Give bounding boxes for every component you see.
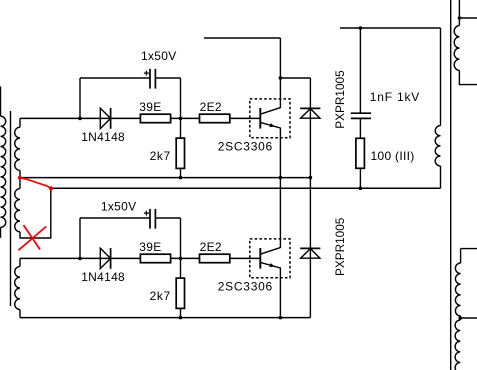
- svg-text:1x50V: 1x50V: [141, 49, 177, 63]
- svg-text:1nF 1kV: 1nF 1kV: [370, 90, 420, 104]
- svg-text:2E2: 2E2: [200, 240, 222, 254]
- svg-text:PXPR1005: PXPR1005: [333, 217, 347, 276]
- svg-text:39E: 39E: [139, 240, 161, 254]
- svg-text:39E: 39E: [139, 100, 161, 114]
- svg-text:1N4148: 1N4148: [81, 270, 125, 284]
- svg-text:1x50V: 1x50V: [101, 200, 137, 214]
- svg-text:2k7: 2k7: [150, 149, 171, 163]
- svg-text:2k7: 2k7: [150, 289, 171, 303]
- svg-text:100 (III): 100 (III): [371, 149, 415, 163]
- svg-text:1N4148: 1N4148: [81, 130, 125, 144]
- svg-text:2SC3306: 2SC3306: [218, 280, 273, 294]
- svg-text:PXPR1005: PXPR1005: [333, 70, 347, 129]
- svg-text:2SC3306: 2SC3306: [218, 140, 273, 154]
- svg-text:2E2: 2E2: [200, 100, 222, 114]
